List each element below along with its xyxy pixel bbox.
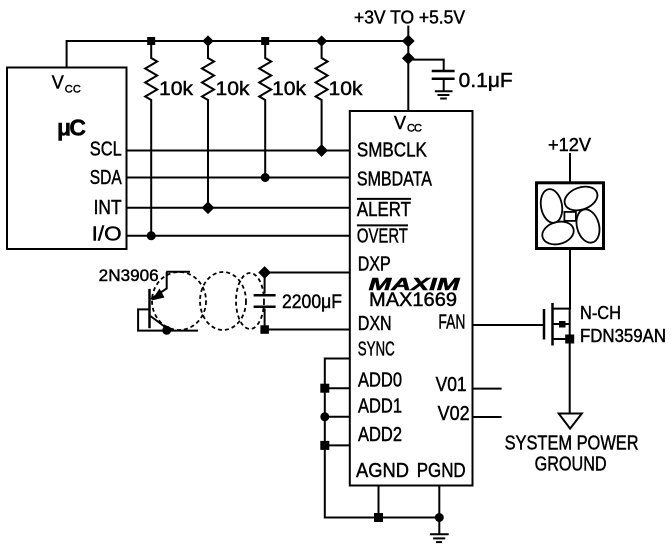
svg-text:10k: 10k — [159, 79, 194, 100]
svg-text:μC: μC — [57, 115, 86, 141]
svg-text:ADD1: ADD1 — [358, 395, 402, 417]
svg-text:V: V — [52, 73, 64, 93]
svg-text:V01: V01 — [436, 374, 467, 396]
svg-text:V02: V02 — [438, 403, 470, 425]
svg-text:OVERT: OVERT — [357, 226, 408, 248]
svg-text:ADD0: ADD0 — [358, 369, 402, 391]
svg-text:10k: 10k — [216, 79, 251, 100]
svg-text:CC: CC — [65, 83, 81, 95]
svg-text:+12V: +12V — [548, 135, 591, 155]
svg-text:AGND: AGND — [356, 460, 409, 482]
svg-text:DXP: DXP — [358, 254, 391, 276]
svg-text:SDA: SDA — [90, 167, 123, 189]
svg-text:PGND: PGND — [417, 460, 466, 482]
svg-text:MAX1669: MAX1669 — [369, 290, 457, 311]
svg-text:0.1μF: 0.1μF — [459, 70, 513, 92]
svg-text:SYSTEM POWER: SYSTEM POWER — [505, 433, 639, 455]
svg-text:N-CH: N-CH — [580, 303, 621, 323]
svg-text:10k: 10k — [272, 79, 307, 100]
svg-text:FAN: FAN — [438, 312, 465, 334]
svg-text:GROUND: GROUND — [535, 454, 607, 476]
svg-text:SYNC: SYNC — [358, 338, 395, 360]
svg-text:SMBDATA: SMBDATA — [357, 169, 433, 191]
svg-text:10k: 10k — [329, 79, 364, 100]
svg-text:ALERT: ALERT — [357, 199, 411, 221]
svg-text:2N3906: 2N3906 — [99, 266, 159, 285]
svg-text:V: V — [394, 113, 406, 133]
svg-text:ADD2: ADD2 — [358, 424, 402, 446]
svg-text:FDN359AN: FDN359AN — [580, 326, 666, 346]
svg-text:SCL: SCL — [90, 138, 122, 160]
svg-text:I/O: I/O — [92, 223, 122, 245]
svg-text:INT: INT — [94, 197, 122, 219]
svg-text:DXN: DXN — [358, 313, 392, 335]
svg-text:SMBCLK: SMBCLK — [357, 140, 428, 162]
svg-text:+3V TO +5.5V: +3V TO +5.5V — [354, 8, 465, 28]
svg-text:2200μF: 2200μF — [282, 292, 342, 313]
svg-text:CC: CC — [407, 123, 422, 135]
